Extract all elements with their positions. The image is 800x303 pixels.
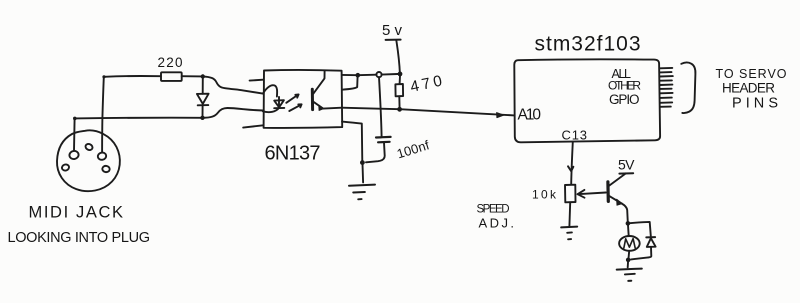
svg-text:C13: C13: [562, 128, 588, 143]
svg-text:100nf: 100nf: [395, 137, 431, 161]
svg-text:stm32f103: stm32f103: [535, 33, 641, 56]
svg-text:10k: 10k: [532, 188, 557, 202]
svg-text:470: 470: [409, 73, 444, 96]
svg-text:LOOKING INTO PLUG: LOOKING INTO PLUG: [8, 230, 151, 246]
svg-text:6N137: 6N137: [265, 143, 321, 165]
svg-text:A10: A10: [518, 107, 542, 124]
svg-text:5v: 5v: [382, 22, 403, 39]
svg-text:MIDI JACK: MIDI JACK: [29, 204, 124, 222]
svg-text:220: 220: [158, 55, 183, 70]
svg-text:GPIO: GPIO: [609, 92, 640, 107]
svg-text:TO SERVO: TO SERVO: [716, 67, 787, 81]
svg-text:ADJ.: ADJ.: [479, 215, 515, 230]
svg-text:SPEED: SPEED: [477, 204, 510, 216]
svg-text:OTHER: OTHER: [608, 79, 641, 93]
svg-text:5V: 5V: [618, 157, 635, 173]
svg-text:PINS: PINS: [732, 96, 778, 112]
svg-text:HEADER: HEADER: [722, 81, 775, 96]
